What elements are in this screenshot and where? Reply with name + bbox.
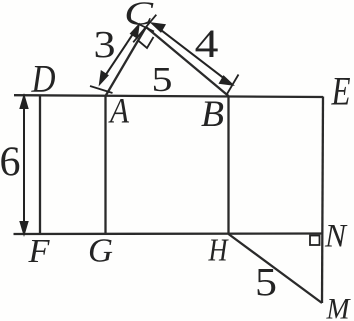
dimension 3 line with arrows and ticks <box>90 20 154 93</box>
right angle mark at N <box>310 236 320 246</box>
tick at A for dim 3 <box>90 86 113 93</box>
svg-text:E: E <box>331 69 351 114</box>
wire side C-A <box>106 27 147 96</box>
svg-text:6: 6 <box>0 140 21 186</box>
svg-text:C: C <box>124 0 154 32</box>
svg-text:D: D <box>31 58 56 101</box>
svg-text:A: A <box>108 91 130 131</box>
wire left edge D-F <box>39 96 41 234</box>
wire side C-B <box>146 27 229 96</box>
tick at C for dim 4 <box>133 15 156 43</box>
right angle mark at C <box>138 37 154 48</box>
wire top edge D-A-B-E <box>14 95 323 97</box>
svg-text:B: B <box>201 94 224 135</box>
svg-text:M: M <box>326 293 352 321</box>
wire B-H <box>227 96 229 234</box>
svg-text:3: 3 <box>93 23 115 65</box>
tick at C for dim 3 <box>130 20 154 32</box>
wire A-G <box>104 96 106 234</box>
svg-text:F: F <box>27 233 50 270</box>
svg-text:H: H <box>208 232 229 268</box>
svg-text:N: N <box>324 219 348 255</box>
dimension 4 line with arrows and ticks <box>133 15 238 94</box>
dimension 6 line with arrows <box>21 97 28 234</box>
svg-text:4: 4 <box>195 22 219 67</box>
wire bottom edge F-G-H-N <box>14 232 324 235</box>
wire right edge E-N-M <box>322 97 323 304</box>
wire H-M <box>229 234 323 303</box>
svg-text:5: 5 <box>255 261 277 305</box>
svg-text:5: 5 <box>152 60 173 99</box>
svg-text:G: G <box>88 233 113 270</box>
tick at B for dim 4 <box>227 75 239 95</box>
